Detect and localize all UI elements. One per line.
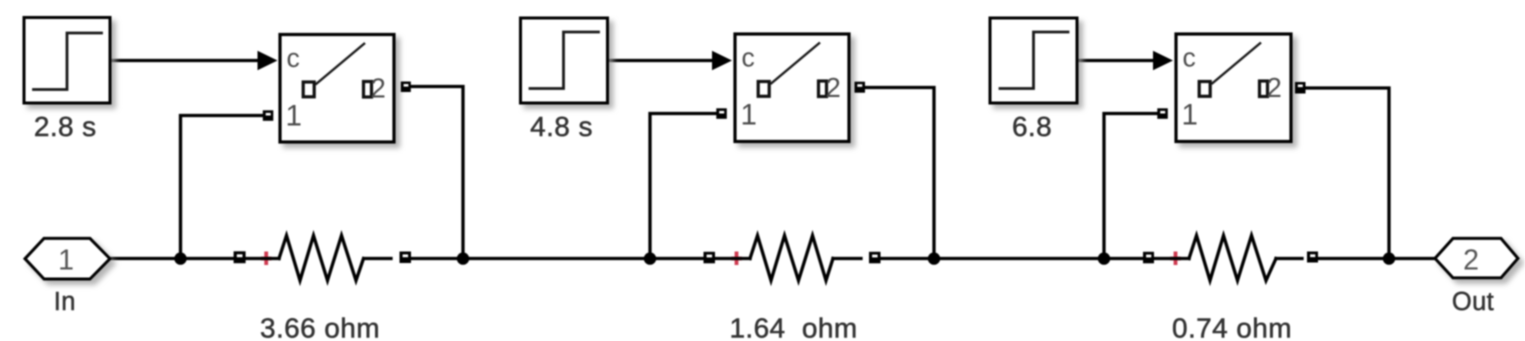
svg-text:2.8 s: 2.8 s: [34, 111, 97, 142]
svg-text:1: 1: [58, 245, 74, 277]
svg-text:1: 1: [741, 99, 757, 132]
svg-text:2: 2: [826, 72, 841, 103]
svg-text:Out: Out: [1452, 288, 1494, 316]
svg-text:6.8: 6.8: [1012, 111, 1052, 142]
svg-text:c: c: [742, 43, 755, 73]
svg-text:In: In: [54, 288, 76, 316]
svg-text:c: c: [287, 43, 300, 73]
svg-text:1: 1: [286, 100, 302, 133]
svg-text:1: 1: [1182, 99, 1198, 132]
svg-text:2: 2: [1463, 245, 1479, 277]
svg-text:c: c: [1183, 43, 1196, 73]
svg-text:4.8 s: 4.8 s: [530, 111, 593, 142]
svg-text:3.66 ohm: 3.66 ohm: [260, 313, 380, 341]
svg-text:2: 2: [1267, 72, 1282, 103]
svg-text:1.64 ohm: 1.64 ohm: [729, 313, 857, 341]
svg-text:0.74 ohm: 0.74 ohm: [1172, 313, 1292, 341]
svg-text:2: 2: [371, 73, 386, 104]
